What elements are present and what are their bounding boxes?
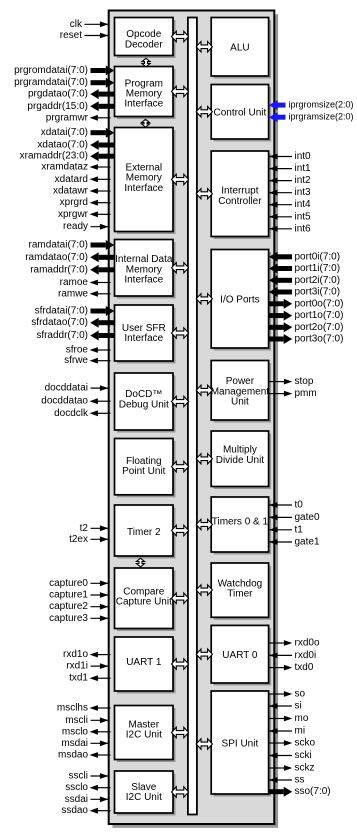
svg-text:xprgwr: xprgwr: [58, 209, 89, 220]
block Internal Data Memory Interface: [115, 240, 176, 299]
output signal xdatawr: [53, 186, 111, 197]
svg-text:I2C Unit: I2C Unit: [126, 729, 162, 740]
svg-text:ramaddr(7:0): ramaddr(7:0): [30, 264, 88, 275]
svg-text:sfraddr(7:0): sfraddr(7:0): [36, 330, 88, 341]
svg-text:si: si: [295, 701, 302, 712]
input signal msdai: [61, 738, 109, 749]
svg-text:rxd0i: rxd0i: [295, 650, 317, 661]
output signal xprgrd: [60, 197, 111, 208]
svg-text:msdai: msdai: [61, 738, 88, 749]
input signal prgromdatai(7:0): [14, 65, 114, 76]
svg-text:ssdao: ssdao: [61, 805, 88, 816]
vertical connector Timer 2 to Compare Capture Unit: [137, 558, 145, 567]
output signal xdatard: [55, 174, 111, 185]
internal bus: [188, 18, 197, 815]
block Interrupt Controller: [211, 151, 271, 239]
svg-text:mscli: mscli: [65, 715, 88, 726]
svg-text:sscli: sscli: [69, 771, 88, 782]
output signal scko: [269, 738, 316, 749]
svg-text:Decoder: Decoder: [125, 39, 163, 50]
block I/O Ports: [211, 250, 271, 351]
svg-text:sfrdatao(7:0): sfrdatao(7:0): [31, 317, 88, 328]
svg-text:capture0: capture0: [49, 578, 88, 589]
bus connector SPI Unit: [196, 739, 212, 749]
output signal xramaddr(23:0): [20, 151, 115, 162]
svg-text:UART 0: UART 0: [222, 650, 258, 661]
svg-text:Interface: Interface: [124, 99, 163, 110]
svg-text:Interface: Interface: [124, 333, 163, 344]
svg-text:port1i(7:0): port1i(7:0): [295, 263, 341, 274]
output signal msclhs: [57, 703, 111, 714]
svg-text:docdclk: docdclk: [54, 408, 89, 419]
svg-text:prgaddr(15:0): prgaddr(15:0): [27, 101, 88, 112]
input signal sscli: [69, 771, 110, 782]
output signal mo: [269, 713, 309, 724]
output signal ramdatao(7:0): [25, 252, 114, 263]
bus connector DoCD Debug Unit: [172, 396, 189, 406]
svg-text:prgramwr: prgramwr: [46, 112, 89, 123]
input signal port3i(7:0): [269, 287, 340, 298]
svg-text:capture1: capture1: [49, 590, 88, 601]
block Timers 0 &amp; 1: [211, 497, 271, 555]
input signal scki: [269, 750, 312, 761]
input signal prgramdatai(7:0): [14, 77, 114, 88]
svg-text:int0: int0: [295, 151, 312, 162]
output signal ramwe: [58, 288, 111, 299]
input signal int5: [269, 211, 311, 222]
vertical connector Opcode Decoder to Program Memory Interface: [142, 58, 150, 67]
output signal so: [269, 689, 306, 700]
input signal reset: [60, 30, 110, 41]
svg-text:ssclo: ssclo: [65, 782, 88, 793]
svg-text:ramdatao(7:0): ramdatao(7:0): [25, 252, 88, 263]
svg-text:xramaddr(23:0): xramaddr(23:0): [20, 151, 88, 162]
svg-text:scko: scko: [295, 738, 316, 749]
bus connector Watchdog Timer: [196, 585, 212, 595]
bus connector Internal Data Memory Interface: [172, 263, 189, 273]
svg-text:mo: mo: [295, 713, 309, 724]
svg-text:int4: int4: [295, 199, 312, 210]
bus connector Slave I2C Unit: [172, 787, 189, 797]
input signal t0: [269, 500, 303, 511]
svg-text:iprgramsize(2:0): iprgramsize(2:0): [289, 112, 354, 122]
input signal rxd1i: [66, 661, 109, 672]
bus connector Master I2C Unit: [172, 727, 189, 737]
svg-text:Timer 2: Timer 2: [127, 527, 161, 538]
svg-text:Capture Unit: Capture Unit: [116, 597, 172, 608]
input signal capture1: [49, 590, 109, 601]
input signal gate0: [269, 512, 320, 523]
block Power Management Unit: [211, 361, 271, 423]
svg-text:t1: t1: [295, 524, 304, 535]
block ALU: [211, 18, 271, 79]
output signal rxd1o: [63, 649, 111, 660]
output signal docdclk: [54, 408, 110, 419]
svg-text:docddatao: docddatao: [41, 396, 88, 407]
input signal sfrdatai(7:0): [35, 306, 115, 317]
svg-text:sso(7:0): sso(7:0): [295, 786, 331, 797]
output signal xramdataz: [41, 162, 110, 173]
svg-text:Control Unit: Control Unit: [213, 107, 266, 118]
svg-text:xdatawr: xdatawr: [53, 186, 89, 197]
svg-text:msclhs: msclhs: [57, 703, 88, 714]
svg-text:sfroe: sfroe: [66, 345, 89, 356]
input signal int4: [269, 199, 311, 210]
svg-text:so: so: [295, 689, 306, 700]
block Master I2C Unit: [115, 706, 176, 763]
svg-text:int1: int1: [295, 163, 312, 174]
bus connector ALU: [196, 42, 212, 53]
svg-text:Unit: Unit: [231, 397, 249, 408]
svg-text:t2: t2: [80, 523, 89, 534]
svg-text:xdatard: xdatard: [55, 174, 88, 185]
input signal docddatai: [45, 383, 110, 394]
svg-text:xdatai(7:0): xdatai(7:0): [41, 127, 88, 138]
block Control Unit: [211, 85, 271, 142]
svg-text:sfrdatai(7:0): sfrdatai(7:0): [35, 306, 88, 317]
bus connector I/O Ports: [196, 294, 212, 304]
input signal int1: [269, 163, 311, 174]
bus connector External Memory Interface: [172, 174, 189, 184]
output signal sfraddr(7:0): [36, 330, 114, 341]
output signal port2o(7:0): [269, 322, 343, 333]
output signal sso(7:0): [269, 786, 331, 797]
svg-text:msclo: msclo: [62, 726, 89, 737]
svg-text:UART 1: UART 1: [126, 657, 162, 668]
output signal txd0: [269, 662, 314, 673]
svg-text:scki: scki: [295, 750, 312, 761]
input signal mscli: [65, 715, 109, 726]
bus connector Timers 0 and 1: [196, 519, 212, 529]
svg-text:I/O Ports: I/O Ports: [220, 295, 259, 306]
svg-text:capture3: capture3: [49, 613, 88, 624]
output signal ssclo: [65, 782, 110, 793]
input signal int6: [269, 223, 311, 234]
svg-text:msdao: msdao: [58, 750, 88, 761]
svg-text:docddatai: docddatai: [45, 383, 88, 394]
input signal xdatai(7:0): [41, 127, 115, 138]
svg-text:Timer: Timer: [227, 589, 253, 600]
output signal ramoe: [60, 277, 111, 288]
svg-text:Interface: Interface: [124, 183, 163, 194]
input signal clk: [70, 19, 110, 30]
svg-text:sfrwe: sfrwe: [64, 355, 88, 366]
svg-text:sckz: sckz: [295, 763, 315, 774]
block Timer 2: [115, 505, 176, 559]
svg-text:int2: int2: [295, 175, 312, 186]
output signal xdatao(7:0): [37, 140, 114, 151]
input signal t2: [80, 523, 110, 534]
block UART 1: [115, 637, 176, 694]
block SPI Unit: [211, 691, 271, 797]
input signal ss: [269, 775, 305, 786]
bus connector Power Management Unit: [196, 385, 212, 395]
input signal int0: [269, 151, 311, 162]
svg-text:ramdatai(7:0): ramdatai(7:0): [29, 240, 88, 251]
input signal capture0: [49, 578, 109, 589]
input signal int2: [269, 175, 311, 186]
block Slave I2C Unit: [115, 771, 176, 816]
input signal t1: [269, 524, 303, 535]
output signal sfrwe: [64, 355, 110, 366]
bus connector Interrupt Controller: [196, 189, 212, 199]
block Program Memory Interface: [115, 67, 176, 120]
output signal port3o(7:0): [269, 334, 343, 345]
input signal int3: [269, 187, 311, 198]
svg-text:prgdatao(7:0): prgdatao(7:0): [28, 89, 88, 100]
block Floating Point Unit: [115, 439, 176, 498]
svg-text:port0o(7:0): port0o(7:0): [295, 298, 344, 309]
input signal capture3: [49, 613, 109, 624]
svg-text:Timers 0 & 1: Timers 0 & 1: [212, 517, 269, 528]
svg-text:ssdai: ssdai: [65, 794, 88, 805]
block UART 0: [211, 625, 271, 685]
svg-text:iprgromsize(2:0): iprgromsize(2:0): [289, 100, 354, 110]
bus connector Control Unit: [196, 107, 212, 118]
svg-text:Divide Unit: Divide Unit: [216, 455, 265, 466]
output signal pmm: [269, 388, 317, 399]
output signal txd1: [69, 673, 110, 684]
bus connector Floating Point Unit: [172, 461, 189, 471]
svg-text:int5: int5: [295, 211, 312, 222]
svg-text:ramwe: ramwe: [58, 288, 88, 299]
bus connector Timer 2: [172, 525, 189, 535]
output signal xprgwr: [58, 209, 111, 220]
svg-text:mi: mi: [295, 726, 306, 737]
svg-text:reset: reset: [60, 30, 82, 41]
input signal gate1: [269, 537, 320, 548]
svg-text:gate0: gate0: [295, 512, 320, 523]
svg-text:Interface: Interface: [124, 274, 163, 285]
svg-text:ramoe: ramoe: [60, 277, 89, 288]
output signal sfroe: [66, 345, 111, 356]
svg-text:rxd1i: rxd1i: [66, 661, 88, 672]
output signal prgramwr: [46, 112, 111, 123]
chip outer body shadow: [113, 14, 279, 828]
bus connector UART 1: [172, 659, 189, 669]
bus connector UART 0: [196, 649, 212, 659]
svg-text:txd0: txd0: [295, 662, 314, 673]
svg-text:int6: int6: [295, 223, 312, 234]
input signal rxd0i: [269, 650, 316, 661]
svg-text:port2o(7:0): port2o(7:0): [295, 322, 344, 333]
bus connector Opcode Decoder: [172, 31, 189, 41]
block Compare Capture Unit: [115, 568, 176, 631]
block External Memory Interface: [115, 128, 176, 235]
output signal stop: [269, 376, 314, 387]
svg-text:ALU: ALU: [230, 43, 249, 54]
block Watchdog Timer: [211, 563, 271, 620]
output signal prgaddr(15:0): [27, 101, 114, 112]
output signal prgdatao(7:0): [28, 89, 114, 100]
svg-text:gate1: gate1: [295, 537, 320, 548]
svg-text:I2C Unit: I2C Unit: [126, 792, 162, 803]
svg-text:port1o(7:0): port1o(7:0): [295, 310, 344, 321]
bus connector Multiply Divide Unit: [196, 454, 212, 464]
input signal t2ex: [69, 534, 109, 545]
input signal ready: [63, 221, 110, 232]
bus connector User SFR Interface: [172, 328, 189, 338]
block Opcode Decoder: [115, 18, 176, 59]
svg-text:xramdataz: xramdataz: [41, 162, 88, 173]
input signal ramdatai(7:0): [29, 240, 115, 251]
svg-text:rxd0o: rxd0o: [295, 638, 320, 649]
svg-text:rxd1o: rxd1o: [63, 649, 88, 660]
svg-text:prgramdatai(7:0): prgramdatai(7:0): [14, 77, 88, 88]
svg-text:Controller: Controller: [218, 196, 262, 207]
output signal msdao: [58, 750, 111, 761]
output signal sfrdatao(7:0): [31, 317, 114, 328]
input signal port2i(7:0): [269, 275, 340, 286]
output signal sckz: [269, 763, 315, 774]
block Multiply Divide Unit: [211, 431, 271, 489]
input signal ssdai: [65, 794, 110, 805]
output signal port1o(7:0): [269, 310, 343, 321]
svg-text:SPI Unit: SPI Unit: [222, 739, 259, 750]
chip outer body: [109, 11, 275, 825]
input signal iprgramsize(2:0): [269, 112, 354, 123]
svg-text:t2ex: t2ex: [69, 534, 88, 545]
svg-text:capture2: capture2: [49, 601, 88, 612]
svg-text:pmm: pmm: [295, 388, 317, 399]
input signal si: [269, 701, 302, 712]
svg-text:port2i(7:0): port2i(7:0): [295, 275, 341, 286]
input signal port1i(7:0): [269, 263, 340, 274]
svg-text:stop: stop: [295, 376, 314, 387]
svg-text:xdatao(7:0): xdatao(7:0): [37, 140, 88, 151]
input signal iprgromsize(2:0): [269, 100, 354, 111]
block User SFR Interface: [115, 305, 176, 364]
svg-text:ready: ready: [63, 221, 88, 232]
svg-text:prgromdatai(7:0): prgromdatai(7:0): [14, 65, 88, 76]
svg-text:Point Unit: Point Unit: [122, 466, 166, 477]
output signal rxd0o: [269, 638, 320, 649]
svg-text:clk: clk: [70, 19, 83, 30]
output signal ramaddr(7:0): [30, 264, 114, 275]
output signal ssdao: [61, 805, 110, 816]
svg-text:t0: t0: [295, 500, 304, 511]
output signal msclo: [62, 726, 111, 737]
svg-text:int3: int3: [295, 187, 312, 198]
svg-text:xprgrd: xprgrd: [60, 197, 88, 208]
vertical connector Program Memory Interface to External Memory Interface: [142, 119, 150, 127]
output signal port0o(7:0): [269, 298, 343, 309]
input signal port0i(7:0): [269, 251, 340, 262]
svg-text:txd1: txd1: [69, 673, 88, 684]
bus connector Program Memory Interface: [172, 86, 189, 96]
svg-text:port3o(7:0): port3o(7:0): [295, 334, 344, 345]
bus connector Compare Capture Unit: [172, 593, 189, 604]
svg-text:port3i(7:0): port3i(7:0): [295, 287, 341, 298]
svg-text:port0i(7:0): port0i(7:0): [295, 251, 341, 262]
block DoCD Debug Unit: [115, 373, 176, 433]
output signal docddatao: [41, 396, 110, 407]
svg-text:ss: ss: [295, 775, 305, 786]
input signal mi: [269, 726, 305, 737]
svg-text:Debug Unit: Debug Unit: [119, 399, 169, 410]
input signal capture2: [49, 601, 109, 612]
